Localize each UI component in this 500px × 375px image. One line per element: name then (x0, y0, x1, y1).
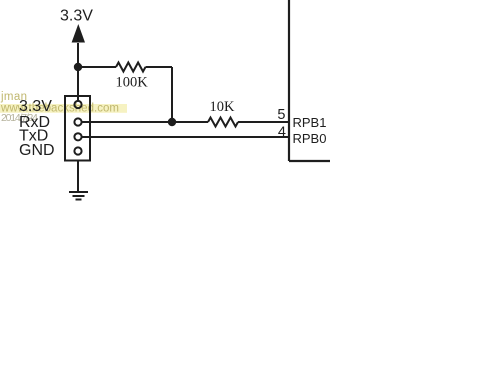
resistor 100K (116, 63, 146, 72)
svg-text:GND: GND (19, 142, 55, 159)
resistor 10K (208, 118, 238, 127)
svg-text:100K: 100K (116, 75, 149, 91)
connector pin 2 (RxD) (74, 118, 81, 125)
svg-text:5: 5 (277, 107, 285, 123)
node A junction dot on power rail (74, 63, 82, 71)
watermark highlight band (0, 104, 127, 113)
connector pin 4 (GND) (74, 147, 81, 154)
wire: power rail down to connector pin1 (77, 67, 79, 101)
node B junction dot (168, 118, 176, 126)
wire: pin3 TxD to MCU pin 4 (82, 136, 289, 138)
wire: connector pin4 to ground (77, 161, 79, 193)
connector pin 3 (TxD) (74, 133, 81, 140)
wire: node B to resistor 10K (172, 121, 208, 123)
svg-text:3.3V: 3.3V (60, 8, 93, 25)
wire: corner down to node B (171, 67, 173, 122)
wire: resistor 100K to corner (146, 66, 173, 68)
MCU U1 outline bottom edge (289, 160, 330, 162)
wire: resistor 10K to MCU pin 5 (238, 121, 289, 123)
connector J1 body (65, 96, 90, 161)
power symbol 3.3V arrow (72, 24, 85, 67)
svg-text:3.3V: 3.3V (19, 98, 52, 115)
wire: pin2 RxD to node B (82, 121, 172, 123)
svg-text:4: 4 (278, 124, 286, 140)
svg-text:RPB1: RPB1 (293, 115, 327, 130)
ground (69, 192, 88, 200)
MCU U1 outline left edge (288, 0, 290, 161)
connector pin 1 (3.3V) (74, 101, 81, 108)
svg-text:RPB0: RPB0 (293, 131, 327, 146)
wire: node A to resistor 100K (78, 66, 116, 68)
svg-text:10K: 10K (210, 99, 236, 115)
